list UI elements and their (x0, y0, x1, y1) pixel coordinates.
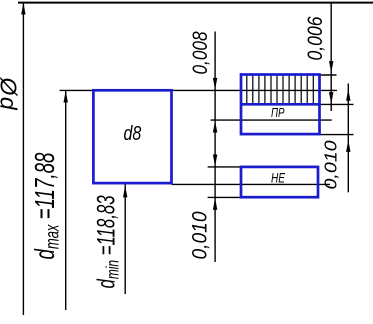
svg-text:0,006: 0,006 (304, 16, 328, 60)
svg-text:0,010: 0,010 (189, 211, 212, 260)
svg-text:dmax =117,88: dmax =117,88 (29, 152, 63, 259)
svg-text:ПР: ПР (271, 106, 285, 120)
svg-text:0,008: 0,008 (189, 31, 212, 74)
svg-text:dmin =118,83: dmin =118,83 (92, 195, 123, 288)
svg-text:НЕ: НЕ (271, 170, 285, 186)
svg-text:d8: d8 (124, 122, 142, 144)
svg-text:0,010: 0,010 (320, 140, 340, 190)
svg-text:Ød: Ød (0, 77, 22, 112)
